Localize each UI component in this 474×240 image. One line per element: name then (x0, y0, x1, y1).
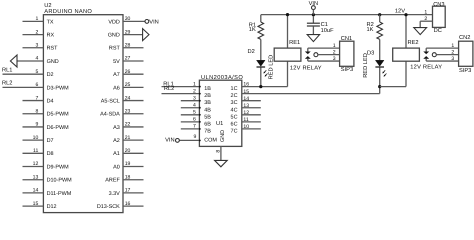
svg-text:SIP3: SIP3 (459, 68, 471, 74)
svg-text:12: 12 (243, 110, 249, 116)
svg-text:25: 25 (125, 82, 131, 88)
svg-text:3.3V: 3.3V (109, 191, 121, 197)
svg-text:7: 7 (193, 124, 196, 130)
svg-text:4B: 4B (204, 107, 211, 113)
svg-text:19: 19 (125, 161, 131, 167)
svg-text:RL1: RL1 (2, 68, 12, 74)
svg-text:6: 6 (35, 82, 38, 88)
svg-text:VIN: VIN (149, 19, 158, 25)
svg-text:7C: 7C (231, 128, 238, 134)
svg-text:7B: 7B (204, 128, 211, 134)
svg-text:8: 8 (35, 108, 38, 114)
svg-text:23: 23 (125, 108, 131, 114)
svg-text:15: 15 (33, 201, 39, 207)
svg-text:5V: 5V (113, 59, 120, 65)
svg-text:A0: A0 (113, 164, 120, 170)
svg-text:RX: RX (47, 32, 55, 38)
svg-text:A5-SCL: A5-SCL (101, 98, 120, 104)
svg-text:D8: D8 (47, 151, 54, 157)
svg-text:17: 17 (125, 188, 131, 194)
svg-text:27: 27 (125, 56, 131, 62)
svg-text:10: 10 (33, 135, 39, 141)
svg-text:12V: 12V (395, 9, 405, 15)
svg-text:12: 12 (33, 161, 39, 167)
svg-text:5B: 5B (204, 114, 211, 120)
svg-text:D5-PWM: D5-PWM (47, 112, 70, 118)
svg-text:16: 16 (125, 201, 131, 207)
svg-text:COM: COM (204, 138, 217, 144)
svg-text:CN1: CN1 (341, 36, 352, 42)
svg-text:VDD: VDD (108, 19, 120, 25)
svg-text:22: 22 (125, 122, 131, 128)
svg-text:4: 4 (35, 56, 38, 62)
svg-text:14: 14 (243, 96, 249, 102)
svg-text:D10-PWM: D10-PWM (47, 178, 73, 184)
svg-text:1: 1 (424, 9, 427, 15)
svg-text:7: 7 (35, 95, 38, 101)
svg-text:A6: A6 (113, 85, 120, 91)
svg-text:18: 18 (125, 174, 131, 180)
svg-text:13: 13 (33, 174, 39, 180)
svg-text:1: 1 (451, 43, 454, 49)
svg-text:ULN2003A/SO: ULN2003A/SO (201, 74, 243, 81)
svg-text:D9-PWM: D9-PWM (47, 164, 70, 170)
svg-text:9: 9 (194, 134, 197, 140)
svg-text:9: 9 (35, 122, 38, 128)
svg-text:GND: GND (220, 130, 226, 142)
svg-text:1K: 1K (367, 27, 374, 33)
svg-text:TX: TX (47, 19, 54, 25)
svg-text:GND: GND (47, 59, 59, 65)
svg-text:3: 3 (451, 56, 454, 62)
svg-text:VIN: VIN (165, 138, 174, 144)
svg-text:A2: A2 (113, 138, 120, 144)
svg-text:D12: D12 (47, 204, 57, 210)
svg-text:2C: 2C (231, 93, 238, 99)
svg-text:DC: DC (434, 28, 442, 34)
svg-text:16: 16 (243, 82, 249, 88)
svg-text:11: 11 (33, 148, 38, 154)
svg-text:A4-SDA: A4-SDA (100, 112, 120, 118)
svg-text:D7: D7 (47, 138, 54, 144)
svg-text:12V RELAY: 12V RELAY (290, 65, 322, 71)
svg-text:4: 4 (193, 102, 196, 108)
svg-text:5: 5 (35, 69, 38, 75)
svg-text:RED LED: RED LED (268, 55, 274, 80)
svg-text:D4: D4 (47, 98, 54, 104)
svg-text:29: 29 (125, 29, 131, 35)
svg-text:2: 2 (333, 49, 336, 55)
svg-text:RL2: RL2 (164, 86, 174, 92)
svg-text:26: 26 (125, 69, 131, 75)
svg-text:1K: 1K (249, 27, 256, 33)
svg-text:1C: 1C (231, 86, 238, 92)
svg-text:2: 2 (35, 29, 38, 35)
svg-text:4C: 4C (231, 107, 238, 113)
svg-text:D2: D2 (248, 49, 255, 55)
svg-text:1B: 1B (204, 86, 211, 92)
svg-text:VIN: VIN (309, 1, 318, 7)
svg-text:2: 2 (193, 88, 196, 94)
svg-text:RL2: RL2 (2, 81, 12, 87)
svg-text:ARDUINO NANO: ARDUINO NANO (44, 9, 92, 15)
svg-text:1: 1 (193, 81, 196, 87)
svg-text:3: 3 (35, 42, 38, 48)
svg-text:24: 24 (125, 95, 131, 101)
svg-text:D3-PWM: D3-PWM (47, 85, 70, 91)
svg-text:12V RELAY: 12V RELAY (410, 65, 442, 71)
svg-text:D11-PWM: D11-PWM (47, 191, 72, 197)
svg-text:3B: 3B (204, 100, 211, 106)
svg-text:D2: D2 (47, 72, 54, 78)
svg-text:2B: 2B (204, 93, 211, 99)
svg-text:2: 2 (451, 49, 454, 55)
svg-text:RED LED: RED LED (363, 53, 369, 78)
svg-text:6B: 6B (204, 121, 211, 127)
svg-text:6C: 6C (231, 121, 238, 127)
svg-text:28: 28 (125, 42, 131, 48)
svg-text:D6-PWM: D6-PWM (47, 125, 70, 131)
svg-text:6: 6 (193, 117, 196, 123)
svg-text:15: 15 (243, 89, 249, 95)
svg-text:1: 1 (333, 43, 336, 49)
svg-text:11: 11 (243, 117, 248, 123)
svg-text:RE1: RE1 (289, 40, 300, 46)
svg-text:AREF: AREF (105, 178, 120, 184)
svg-text:3: 3 (333, 56, 336, 62)
svg-text:5C: 5C (231, 114, 238, 120)
svg-text:CN3: CN3 (433, 2, 444, 8)
svg-text:20: 20 (125, 148, 131, 154)
svg-text:A1: A1 (113, 151, 120, 157)
svg-text:GND: GND (108, 32, 120, 38)
svg-text:SIP3: SIP3 (341, 67, 353, 73)
svg-text:RST: RST (109, 46, 121, 52)
svg-text:CN2: CN2 (459, 35, 470, 41)
svg-text:A3: A3 (113, 125, 120, 131)
svg-text:13: 13 (243, 103, 249, 109)
svg-text:RE2: RE2 (408, 40, 419, 46)
svg-text:3C: 3C (231, 100, 238, 106)
svg-text:5: 5 (193, 110, 196, 116)
svg-text:14: 14 (33, 188, 39, 194)
svg-text:U1: U1 (216, 121, 223, 127)
svg-text:A7: A7 (113, 72, 120, 78)
svg-text:10: 10 (243, 124, 249, 130)
svg-text:RST: RST (47, 46, 59, 52)
svg-text:30: 30 (125, 16, 131, 22)
svg-text:8: 8 (215, 150, 221, 153)
svg-text:D13-SCK: D13-SCK (97, 204, 120, 210)
svg-text:2: 2 (424, 16, 427, 22)
svg-text:21: 21 (125, 135, 131, 141)
svg-text:10uF: 10uF (321, 28, 334, 34)
svg-text:1: 1 (35, 16, 38, 22)
svg-text:3: 3 (193, 95, 196, 101)
